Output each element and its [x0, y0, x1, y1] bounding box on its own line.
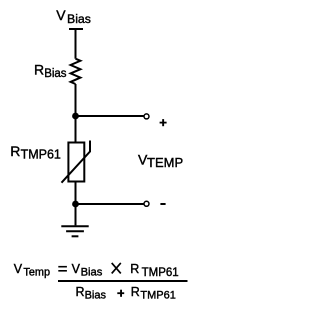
- svg-text:TEMP: TEMP: [147, 155, 183, 170]
- thermistor RTMP61 body: [68, 143, 84, 182]
- svg-text:R: R: [130, 262, 139, 276]
- terminal + open circle: [144, 114, 149, 119]
- node B junction dot: [72, 201, 79, 208]
- wire VBias to RBias: [75, 29, 77, 59]
- svg-text:TMP61: TMP61: [140, 290, 175, 302]
- resistor RBias: [71, 59, 81, 84]
- net label VBias: [56, 7, 91, 26]
- svg-text:R: R: [131, 285, 140, 299]
- svg-text:Temp: Temp: [23, 267, 50, 279]
- label + polarity: [160, 119, 167, 126]
- power symbol VBias: [69, 28, 83, 30]
- svg-text:R: R: [76, 285, 85, 299]
- svg-text:R: R: [34, 61, 44, 77]
- svg-text:V: V: [14, 262, 23, 276]
- formula numerator VBias: [72, 262, 103, 279]
- formula denominator RBias: [76, 285, 107, 302]
- formula denominator RTMP61: [131, 285, 176, 302]
- wire node B to ground: [75, 204, 77, 225]
- formula plus sign: [117, 290, 124, 297]
- svg-text:V: V: [56, 7, 66, 23]
- svg-text:TMP61: TMP61: [21, 148, 61, 162]
- net label VTEMP: [138, 151, 183, 170]
- svg-text:Bias: Bias: [81, 267, 103, 279]
- svg-text:TMP61: TMP61: [142, 267, 179, 279]
- ground: [61, 226, 88, 236]
- node A junction dot: [72, 113, 79, 120]
- formula VTemp: [14, 262, 50, 279]
- svg-text:R: R: [10, 143, 20, 159]
- terminal - open circle: [144, 201, 149, 206]
- wire node B to - terminal: [76, 203, 144, 205]
- svg-text:V: V: [72, 262, 81, 276]
- label - polarity: [160, 203, 165, 205]
- value label RTMP61: [10, 143, 61, 162]
- formula equals sign: [58, 266, 67, 272]
- formula multiplication X: [112, 263, 121, 274]
- svg-text:Bias: Bias: [44, 68, 67, 80]
- svg-text:Bias: Bias: [85, 290, 107, 302]
- wire RBias to node A: [75, 84, 77, 116]
- wire RTMP61 to node B: [75, 183, 77, 205]
- wire node A to + terminal: [76, 115, 144, 117]
- svg-text:Bias: Bias: [67, 12, 91, 26]
- wire node A to RTMP61: [75, 116, 77, 142]
- formula fraction bar: [58, 280, 188, 282]
- thermistor RTMP61 diagonal stroke: [62, 141, 91, 183]
- formula numerator RTMP61: [130, 262, 178, 279]
- value label RBias: [34, 61, 67, 80]
